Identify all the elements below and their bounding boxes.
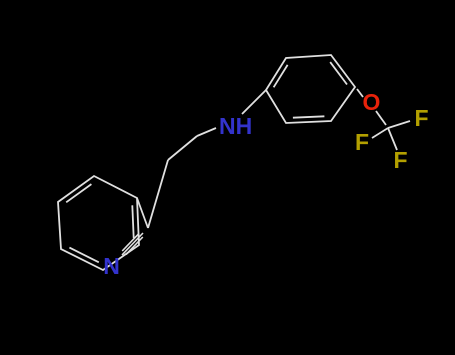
- wire: CH2 to CH2 chain segment: [168, 136, 197, 160]
- svg-text:NH: NH: [219, 113, 252, 139]
- svg-text:O: O: [363, 89, 381, 115]
- wire: CH to CH2 chain segment: [148, 160, 168, 228]
- wire: NH to right ring (aniline bond): [242, 90, 266, 114]
- left ring aromatic inner line F-A: [66, 184, 91, 202]
- benzene ring (right, 4-OCF3 phenyl): [266, 55, 355, 123]
- svg-text:F: F: [355, 129, 369, 155]
- nitrile C#N triple bond: [126, 237, 143, 255]
- left ring aromatic inner line D-E: [69, 248, 98, 263]
- right ring aromatic inner line RE-RF: [293, 116, 325, 117]
- wire: O to CF3 carbon: [376, 111, 386, 125]
- wire: CF3 carbon to F upper right: [388, 121, 410, 128]
- svg-text:N: N: [103, 253, 120, 279]
- left ring aromatic inner line B-C: [132, 205, 133, 238]
- svg-text:F: F: [393, 147, 407, 173]
- benzene ring (left phenyl): [58, 176, 139, 270]
- wire: ring RD to O: [357, 89, 363, 97]
- svg-text:F: F: [414, 105, 428, 131]
- right ring aromatic inner line RA-RB: [274, 65, 288, 87]
- wire: CF3 carbon to F left: [372, 128, 388, 138]
- wire: CH2 to NH: [197, 128, 216, 136]
- wire: CF3 carbon to F bottom: [388, 128, 397, 150]
- wire: ring vertex B to CH carbon: [137, 198, 148, 228]
- right ring aromatic inner line RC-RD: [330, 62, 347, 84]
